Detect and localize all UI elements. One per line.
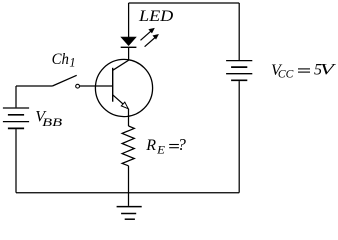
svg-text:R: R: [145, 137, 156, 154]
svg-text:V: V: [320, 62, 337, 79]
svg-text:1: 1: [69, 56, 75, 70]
svg-text:CC: CC: [278, 69, 294, 81]
svg-text:E: E: [156, 143, 166, 157]
svg-text:Ch: Ch: [52, 51, 69, 68]
svg-text:?: ?: [178, 135, 187, 154]
svg-text:LED: LED: [138, 8, 174, 25]
svg-text:BB: BB: [42, 117, 62, 129]
